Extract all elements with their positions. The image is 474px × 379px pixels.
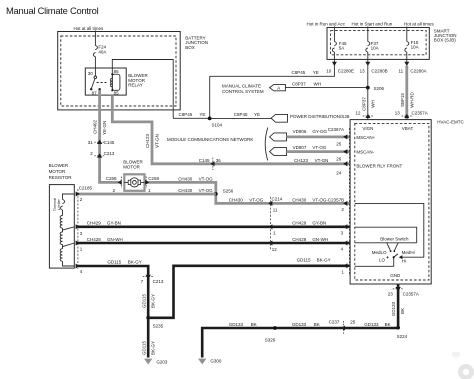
svg-text:40A: 40A bbox=[98, 50, 106, 55]
wire C8P45 YE from relay pin 86 around BJB to S104 bbox=[112, 60, 209, 119]
svg-text:VT-OG: VT-OG bbox=[312, 145, 327, 150]
svg-text:1: 1 bbox=[273, 231, 276, 236]
svg-text:C8P45: C8P45 bbox=[179, 112, 193, 117]
connector C145 pin 36 arrow bbox=[210, 161, 214, 166]
node S326 bbox=[273, 326, 277, 330]
svg-text:C8P37: C8P37 bbox=[362, 97, 367, 111]
wire GD133 BK main ground run bbox=[202, 328, 398, 358]
network flag MSCAN+ bbox=[270, 133, 287, 141]
connector C213 pin 2 arrow bbox=[97, 153, 102, 157]
resistor coil 3 bbox=[60, 249, 62, 262]
svg-text:1: 1 bbox=[148, 188, 151, 193]
svg-text:Hot in Start and Run: Hot in Start and Run bbox=[352, 21, 393, 26]
wire F37 to S206 bbox=[367, 59, 369, 87]
wire C8P37 WH from flag A to S206 bbox=[285, 87, 367, 89]
svg-text:10: 10 bbox=[326, 69, 332, 74]
connector pin 12 arrow bbox=[366, 114, 371, 118]
wire CH430 VT-OG from resistor pin 2 to S256 bbox=[78, 193, 216, 196]
connector C268 right arrow pin 1 bbox=[145, 180, 149, 185]
node S206 bbox=[366, 86, 370, 90]
svg-text:YE: YE bbox=[313, 70, 319, 75]
Hi contact arrow bbox=[399, 255, 403, 259]
svg-text:7: 7 bbox=[141, 279, 144, 284]
connector C2185 dashed line bbox=[77, 189, 79, 269]
svg-text:S104: S104 bbox=[212, 123, 223, 128]
connector C237 pin 25 arrow bbox=[341, 326, 345, 331]
svg-text:C8P37: C8P37 bbox=[292, 82, 306, 87]
svg-text:25: 25 bbox=[336, 141, 342, 146]
relay switch contact circle bbox=[94, 76, 97, 79]
fuse F15 bbox=[405, 42, 409, 53]
svg-text:GD133: GD133 bbox=[391, 301, 396, 316]
svg-text:BK-GY: BK-GY bbox=[128, 260, 142, 265]
switch wiper bbox=[394, 254, 398, 257]
svg-text:Hot at all times: Hot at all times bbox=[74, 26, 105, 31]
wire feed to fuse F37 bbox=[367, 27, 369, 60]
battery junction box outer bbox=[58, 32, 181, 110]
relay pin 87 contact dot bbox=[98, 88, 100, 90]
svg-text:11: 11 bbox=[273, 207, 278, 212]
HVAC-EMTC module box bbox=[350, 120, 431, 284]
svg-text:31: 31 bbox=[88, 140, 94, 145]
svg-text:YE-GN: YE-GN bbox=[102, 121, 107, 135]
svg-text:G203: G203 bbox=[156, 360, 168, 365]
svg-text:C2280E: C2280E bbox=[338, 69, 354, 74]
connector pin 26 arrow bbox=[343, 149, 347, 154]
svg-text:POWER DISTRIBUTION/SJB: POWER DISTRIBUTION/SJB bbox=[290, 114, 350, 119]
svg-text:86: 86 bbox=[114, 69, 120, 74]
wire fuse F24 to relay pin 30 bbox=[94, 57, 96, 76]
HVAC-EMTC dashed box bbox=[355, 123, 429, 280]
wire CH429 GY-BN resistor pin 3 to HVAC pin 3 bbox=[78, 226, 350, 229]
svg-text:85: 85 bbox=[114, 90, 120, 95]
svg-text:GY-BN: GY-BN bbox=[107, 221, 121, 226]
svg-text:13: 13 bbox=[360, 69, 366, 74]
connector pin 24 arrow bbox=[343, 161, 347, 166]
connector C214 pin 1 arrow bbox=[268, 224, 272, 229]
thermal limiter element bbox=[61, 200, 65, 211]
blower motor symbol bbox=[124, 181, 129, 183]
svg-text:CH402: CH402 bbox=[92, 120, 97, 135]
svg-text:BLOWER: BLOWER bbox=[49, 163, 69, 168]
svg-text:C2367A: C2367A bbox=[328, 127, 344, 132]
blower switch label box wiring pin 4 bbox=[355, 242, 417, 244]
wire CH428 GN-WH resistor pin 1 to HVAC pin 4 bbox=[78, 242, 350, 245]
svg-text:BOX (SJB): BOX (SJB) bbox=[434, 38, 457, 43]
fuse F24 bbox=[93, 46, 97, 57]
wire GD115 from S235 down to G203 bbox=[147, 318, 150, 358]
svg-text:VIGN: VIGN bbox=[362, 126, 373, 131]
svg-text:13: 13 bbox=[395, 111, 401, 116]
svg-text:BK-GY: BK-GY bbox=[151, 294, 156, 308]
svg-text:BK: BK bbox=[314, 322, 320, 327]
svg-text:C237: C237 bbox=[329, 319, 340, 324]
svg-text:GD133: GD133 bbox=[364, 322, 379, 327]
svg-text:GN-WH: GN-WH bbox=[312, 237, 328, 242]
svg-text:3: 3 bbox=[341, 230, 344, 235]
connector pin 4 arrow bbox=[343, 241, 347, 246]
svg-text:2: 2 bbox=[113, 188, 116, 193]
svg-text:A: A bbox=[277, 86, 280, 91]
svg-text:VT-OG: VT-OG bbox=[249, 198, 264, 203]
svg-text:BK: BK bbox=[400, 308, 405, 314]
connector C2185 pin 2 arrow bbox=[76, 192, 80, 197]
svg-text:BK-GY: BK-GY bbox=[317, 258, 331, 263]
svg-text:YE: YE bbox=[199, 112, 205, 117]
svg-text:C213: C213 bbox=[153, 279, 164, 284]
svg-text:CH430: CH430 bbox=[178, 188, 193, 193]
svg-text:10A: 10A bbox=[371, 46, 379, 51]
connector pin 23 arrow C2357A bbox=[395, 287, 400, 291]
svg-text:C214: C214 bbox=[272, 196, 283, 201]
wire C8P45 YE from fuse F45 pin 10 down and left to S104 riser bbox=[210, 59, 335, 76]
svg-text:Manual Climate Control: Manual Climate Control bbox=[6, 5, 99, 16]
svg-text:1: 1 bbox=[341, 270, 344, 275]
svg-text:C145: C145 bbox=[104, 140, 115, 145]
connector pin 10 arrow C2280E bbox=[332, 62, 337, 66]
connector pin 25 arrow bbox=[343, 134, 347, 139]
svg-text:Hi: Hi bbox=[402, 258, 406, 263]
wire GD133 BK from HVAC GND pin 23 to S224 bbox=[397, 284, 400, 328]
svg-text:GD115: GD115 bbox=[142, 341, 147, 355]
svg-text:C8P45: C8P45 bbox=[234, 112, 248, 117]
node S235 bbox=[146, 316, 150, 320]
relay switch blade bbox=[91, 79, 95, 89]
wire GD115 from S235 up to HVAC pin 1 bbox=[148, 266, 350, 318]
svg-text:BLOWER RLY FRONT: BLOWER RLY FRONT bbox=[356, 164, 402, 169]
svg-text:CONTROL SYSTEM: CONTROL SYSTEM bbox=[222, 89, 264, 94]
wiper to pin 1 wiring bbox=[355, 257, 394, 266]
power distribution flag bbox=[271, 114, 287, 122]
svg-text:BOX: BOX bbox=[185, 45, 195, 50]
wire C8P45 YE from S104 to power distribution flag bbox=[210, 117, 271, 119]
svg-text:87: 87 bbox=[92, 90, 98, 95]
svg-text:CH429: CH429 bbox=[87, 221, 102, 226]
connector pin 2 arrow bbox=[343, 201, 347, 206]
svg-text:MedLO: MedLO bbox=[372, 250, 387, 255]
wire hot feed to fuse F24 bbox=[94, 31, 96, 46]
svg-text:S256: S256 bbox=[223, 189, 234, 194]
svg-text:GY-OG: GY-OG bbox=[312, 129, 327, 134]
blower motor box bbox=[124, 174, 144, 191]
svg-text:GD115: GD115 bbox=[107, 260, 121, 265]
svg-text:BK: BK bbox=[251, 322, 257, 327]
connector pin 11 arrow C2280A bbox=[404, 62, 409, 66]
svg-text:5A: 5A bbox=[339, 46, 345, 51]
ground G203 bbox=[144, 359, 152, 365]
connector C214 pin 11 arrow bbox=[268, 201, 272, 206]
svg-text:GD115: GD115 bbox=[297, 258, 311, 263]
svg-text:1: 1 bbox=[80, 247, 83, 252]
wire CH402 YE-GN from relay pin 87 to blower motor bbox=[100, 90, 119, 182]
svg-text:C8P45: C8P45 bbox=[292, 70, 306, 75]
connector C2185 pin 4 arrow bbox=[76, 264, 80, 269]
svg-text:C2357A: C2357A bbox=[403, 292, 419, 297]
brace bbox=[265, 128, 268, 161]
resistor coil 2 bbox=[60, 232, 62, 245]
svg-text:10A: 10A bbox=[411, 45, 419, 50]
svg-text:WH-RD: WH-RD bbox=[410, 92, 415, 108]
svg-text:YE: YE bbox=[254, 112, 260, 117]
ground G300 bbox=[198, 359, 206, 365]
connector pin 1 arrow bbox=[343, 263, 347, 268]
svg-text:12: 12 bbox=[356, 111, 362, 116]
svg-text:VD806: VD806 bbox=[293, 129, 307, 134]
svg-text:MODULE COMMUNICATIONS NETWORK: MODULE COMMUNICATIONS NETWORK bbox=[167, 137, 253, 142]
svg-text:25: 25 bbox=[350, 319, 356, 324]
svg-text:MedHi: MedHi bbox=[402, 250, 415, 255]
wire S104 riser bbox=[209, 76, 211, 118]
svg-text:MSCAN+: MSCAN+ bbox=[356, 135, 375, 140]
svg-text:CH123: CH123 bbox=[145, 134, 150, 149]
wire feed to fuse F45 bbox=[333, 27, 335, 60]
network flag MSCAN- bbox=[270, 148, 287, 156]
wire VD806 GY-OG to MSCAN+ bbox=[287, 135, 351, 138]
connector C214 pin 12 arrow bbox=[268, 241, 272, 246]
connector pin 13 arrow C2280B bbox=[365, 62, 370, 66]
svg-text:C2357A: C2357A bbox=[412, 111, 428, 116]
svg-text:C2280A: C2280A bbox=[410, 69, 426, 74]
svg-text:HVAC-EMTC: HVAC-EMTC bbox=[437, 119, 464, 124]
svg-text:23: 23 bbox=[388, 292, 394, 297]
svg-text:GY-BN: GY-BN bbox=[312, 221, 326, 226]
fuse F45 bbox=[332, 42, 336, 53]
blower switch feed wiring from pin 2 bbox=[355, 203, 424, 257]
svg-text:2: 2 bbox=[90, 151, 93, 156]
svg-text:2: 2 bbox=[80, 197, 83, 202]
svg-text:VD807: VD807 bbox=[293, 145, 307, 150]
wire GD115 BK-GY resistor pin 4 to C213 drop bbox=[78, 266, 148, 318]
svg-text:C145: C145 bbox=[199, 158, 210, 163]
svg-text:30: 30 bbox=[88, 71, 94, 76]
svg-text:S206: S206 bbox=[374, 86, 385, 91]
svg-text:CH428: CH428 bbox=[292, 237, 307, 242]
node S104 bbox=[208, 117, 212, 121]
svg-text:VT-GN: VT-GN bbox=[155, 134, 160, 148]
node S256 bbox=[214, 192, 218, 196]
svg-text:WH: WH bbox=[370, 100, 375, 108]
svg-text:Blower Switch: Blower Switch bbox=[380, 236, 409, 241]
svg-text:CH430: CH430 bbox=[292, 198, 307, 203]
svg-text:S326: S326 bbox=[265, 338, 276, 343]
svg-text:BK-GY: BK-GY bbox=[151, 341, 156, 355]
svg-text:26: 26 bbox=[336, 156, 342, 161]
svg-text:RELAY: RELAY bbox=[128, 83, 142, 88]
battery junction box dashed bbox=[61, 36, 176, 106]
flag A manual climate control bbox=[270, 84, 286, 90]
MedLO contact lead bbox=[387, 243, 391, 251]
MedHi contact lead bbox=[394, 243, 398, 251]
wire feed to fuse F15 bbox=[406, 27, 408, 60]
connector C214 dashed line bbox=[270, 197, 272, 251]
svg-text:GND: GND bbox=[390, 273, 401, 278]
svg-text:SBP15: SBP15 bbox=[400, 93, 405, 108]
connector C2185 pin 3 arrow bbox=[76, 224, 80, 229]
resistor internal wiring bbox=[63, 194, 75, 200]
svg-text:MSCAN-: MSCAN- bbox=[356, 150, 374, 155]
svg-text:BK: BK bbox=[385, 322, 391, 327]
svg-text:C213: C213 bbox=[104, 151, 115, 156]
svg-text:CH123: CH123 bbox=[294, 158, 309, 163]
svg-text:MOTOR: MOTOR bbox=[123, 164, 140, 169]
watermark bbox=[452, 352, 474, 379]
svg-text:GD133: GD133 bbox=[292, 322, 307, 327]
svg-text:CH428: CH428 bbox=[87, 237, 102, 242]
svg-text:Hot in Run and Acc: Hot in Run and Acc bbox=[307, 21, 346, 26]
svg-text:GN-WH: GN-WH bbox=[107, 237, 123, 242]
wire C8P37 WH from S206 to HVAC VIGN pin 12 bbox=[367, 88, 369, 120]
svg-text:VT-OG: VT-OG bbox=[199, 177, 214, 182]
svg-text:S235: S235 bbox=[153, 323, 164, 328]
blower switch label box wiring pin 3 bbox=[355, 227, 417, 243]
wire CH430 VT-OG from motor to S256 bbox=[145, 182, 351, 203]
relay actuator dashed link bbox=[97, 82, 107, 84]
connector C145 pin 31 arrow bbox=[97, 140, 102, 144]
wire SBP15 WH-RD from fuse F15 to HVAC VBAT pin 13 bbox=[406, 59, 408, 66]
svg-text:Hot at all times: Hot at all times bbox=[404, 21, 435, 26]
connector pin 13 arrow C2357A bbox=[404, 114, 409, 118]
connector C268 left arrow pin 2 bbox=[118, 180, 122, 185]
LO contact bbox=[386, 256, 388, 258]
svg-text:VT-GN: VT-GN bbox=[315, 158, 329, 163]
svg-text:RESISTOR: RESISTOR bbox=[49, 175, 73, 180]
svg-text:3: 3 bbox=[80, 231, 83, 236]
svg-text:LO: LO bbox=[379, 258, 386, 263]
svg-text:CH430: CH430 bbox=[229, 198, 244, 203]
svg-text:C268: C268 bbox=[148, 176, 159, 181]
svg-text:G300: G300 bbox=[210, 358, 222, 363]
svg-text:GD133: GD133 bbox=[229, 322, 244, 327]
svg-text:CH429: CH429 bbox=[292, 221, 307, 226]
svg-text:VBAT: VBAT bbox=[402, 126, 414, 131]
svg-text:4: 4 bbox=[80, 269, 83, 274]
relay coil bbox=[111, 74, 113, 90]
svg-text:12: 12 bbox=[272, 247, 278, 252]
smart junction box outer bbox=[327, 28, 429, 60]
connector dashed line C2367A/C2357B at HVAC left edge bbox=[348, 128, 350, 276]
svg-text:11: 11 bbox=[399, 69, 404, 74]
connector pin 3 arrow bbox=[343, 224, 347, 229]
svg-text:WH: WH bbox=[314, 82, 322, 87]
svg-text:24: 24 bbox=[336, 170, 342, 175]
svg-text:VT-OG-C2357B: VT-OG-C2357B bbox=[312, 198, 344, 203]
svg-text:36: 36 bbox=[216, 158, 222, 163]
smart junction box dashed bbox=[331, 31, 427, 55]
svg-text:2: 2 bbox=[341, 207, 344, 212]
svg-text:C268: C268 bbox=[106, 176, 117, 181]
svg-text:C2185: C2185 bbox=[79, 186, 93, 191]
connector C2185 pin 1 arrow bbox=[76, 241, 80, 246]
svg-text:C2280B: C2280B bbox=[371, 69, 387, 74]
svg-text:MOTOR: MOTOR bbox=[49, 169, 66, 174]
svg-text:4: 4 bbox=[341, 247, 344, 252]
node S224 bbox=[396, 326, 400, 330]
resistor coil 1 bbox=[60, 215, 62, 228]
svg-text:GD115: GD115 bbox=[142, 294, 147, 308]
wire CH123 VT-GN from relay pin 85 bbox=[112, 95, 350, 164]
relay blower motor relay box bbox=[85, 68, 126, 95]
svg-text:VT-OG: VT-OG bbox=[199, 188, 214, 193]
connector C213 pin 7 arrow bbox=[146, 275, 151, 279]
blower motor resistor box bbox=[49, 185, 74, 269]
svg-text:CH430: CH430 bbox=[178, 177, 193, 182]
svg-text:S224: S224 bbox=[397, 334, 408, 339]
fuse F37 bbox=[366, 42, 370, 53]
wire VD807 VT-OG to MSCAN- bbox=[287, 150, 351, 153]
